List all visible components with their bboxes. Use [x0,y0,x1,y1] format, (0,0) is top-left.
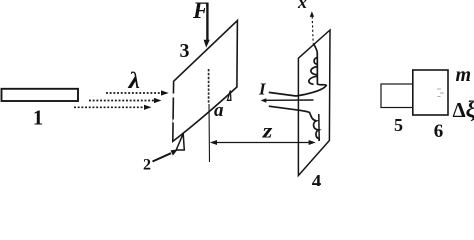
intensity axis I arrow [261,98,314,103]
svg-text:5: 5 [394,115,403,135]
svg-text:z: z [262,119,274,143]
faint reticle dots inside 6 [437,89,444,98]
microscope body 6 [413,70,448,115]
slit axis line below plate [208,104,211,162]
intensity curve lower half [269,106,319,141]
z dimension line [210,140,316,145]
svg-text:6: 6 [434,121,444,142]
intensity curve lower baseline [318,114,320,141]
x axis (dashed, behind screen) [310,11,314,43]
svg-text:m: m [456,64,472,86]
slit hatch line (on plate) [208,69,210,104]
svg-text:4: 4 [312,172,322,187]
svg-text:λ: λ [127,68,139,93]
force arrow F [204,3,210,48]
laser source body 1 [2,89,79,101]
wave dashed arrow bottom [74,105,152,110]
svg-text:1: 1 [33,106,44,130]
scan gaps on plate left edge [173,94,175,123]
svg-text:x: x [297,0,307,12]
pointer arrow 2 [153,149,178,161]
screen 4 (parallelogram) [298,30,330,176]
plate 3 (parallelogram) [173,21,238,142]
intensity curve upper side lobes [309,58,317,85]
wave dashed arrow top [106,90,169,95]
svg-text:F: F [192,0,208,23]
svg-text:2: 2 [143,157,151,174]
svg-text:Δξ: Δξ [453,97,474,122]
intensity curve upper lobes [269,44,327,97]
right support wedge [227,91,231,101]
svg-text:3: 3 [180,40,190,62]
wave dashed arrow middle [89,98,162,103]
eyepiece body 5 [381,84,415,108]
svg-text:a: a [214,100,224,121]
left support wedge [176,134,184,150]
